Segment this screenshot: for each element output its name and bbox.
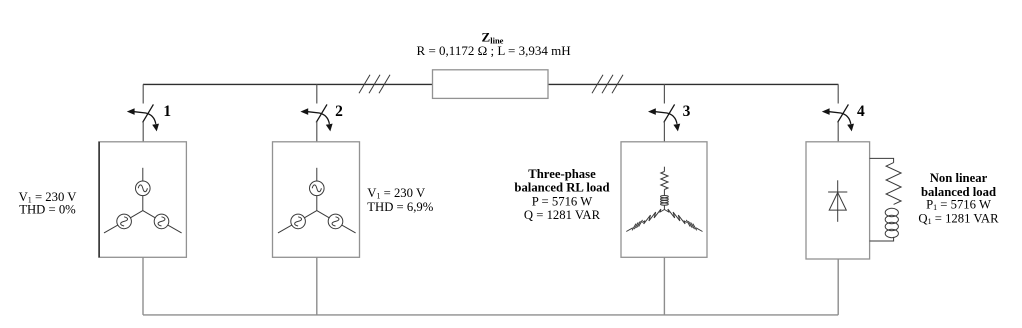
label three-phase balanced RL load xyxy=(514,167,609,222)
wire RL loop top xyxy=(870,158,894,162)
svg-text:THD = 0%: THD = 0% xyxy=(19,203,76,217)
resistor lower-left R xyxy=(642,209,665,224)
wye RL load symbol xyxy=(626,167,702,232)
resistor lower-right R xyxy=(664,209,687,224)
svg-text:P = 5716 W: P = 5716 W xyxy=(532,194,592,208)
wire top bus right segment xyxy=(548,83,838,85)
svg-text:1: 1 xyxy=(163,103,171,120)
breaker switch 2 xyxy=(300,84,332,141)
load box RL xyxy=(621,142,707,257)
load box non linear xyxy=(806,142,870,259)
diode D1 xyxy=(828,180,847,222)
wire drop branch 4 xyxy=(837,259,839,315)
source box S1 dark left edge xyxy=(98,142,100,257)
label non linear balanced load xyxy=(918,171,999,226)
svg-text:2: 2 xyxy=(335,103,343,120)
source box S2 xyxy=(273,142,360,257)
wye AC source 1 xyxy=(104,168,182,233)
three-phase slash marks right xyxy=(592,75,623,93)
breaker switch 3 xyxy=(648,84,680,141)
three-phase slash marks left xyxy=(359,75,390,93)
wire top bus left segment xyxy=(143,83,433,85)
inductor L4 xyxy=(885,208,898,237)
resistor top R xyxy=(663,167,665,172)
wire drop branch 3 xyxy=(663,257,665,315)
wire RL loop bottom xyxy=(870,237,894,241)
svg-text:R = 0,1172 Ω ; L = 3,934 mH: R = 0,1172 Ω ; L = 3,934 mH xyxy=(417,43,571,58)
svg-text:V1 = 230 V: V1 = 230 V xyxy=(367,186,426,201)
wire drop branch 1 xyxy=(142,257,144,315)
svg-text:balanced RL load: balanced RL load xyxy=(514,181,609,195)
svg-text:Q = 1281 VAR: Q = 1281 VAR xyxy=(524,208,601,222)
breaker switch 1 xyxy=(127,84,159,141)
wire bottom bus xyxy=(143,314,838,316)
svg-text:THD = 6,9%: THD = 6,9% xyxy=(367,200,433,214)
inductor top L xyxy=(661,196,669,206)
svg-text:Non linear: Non linear xyxy=(930,171,988,185)
resistor R4 xyxy=(886,163,901,205)
svg-text:Three-phase: Three-phase xyxy=(528,167,596,181)
source box S1 xyxy=(99,142,187,257)
line impedance box Zline xyxy=(433,70,549,99)
wye AC source 2 xyxy=(278,168,356,233)
wire drop branch 2 xyxy=(316,257,318,315)
breaker switch 4 xyxy=(822,84,854,141)
svg-text:4: 4 xyxy=(857,103,865,120)
inductor lower-right L xyxy=(686,220,696,231)
svg-text:3: 3 xyxy=(683,103,691,120)
inductor lower-left L xyxy=(632,220,642,231)
